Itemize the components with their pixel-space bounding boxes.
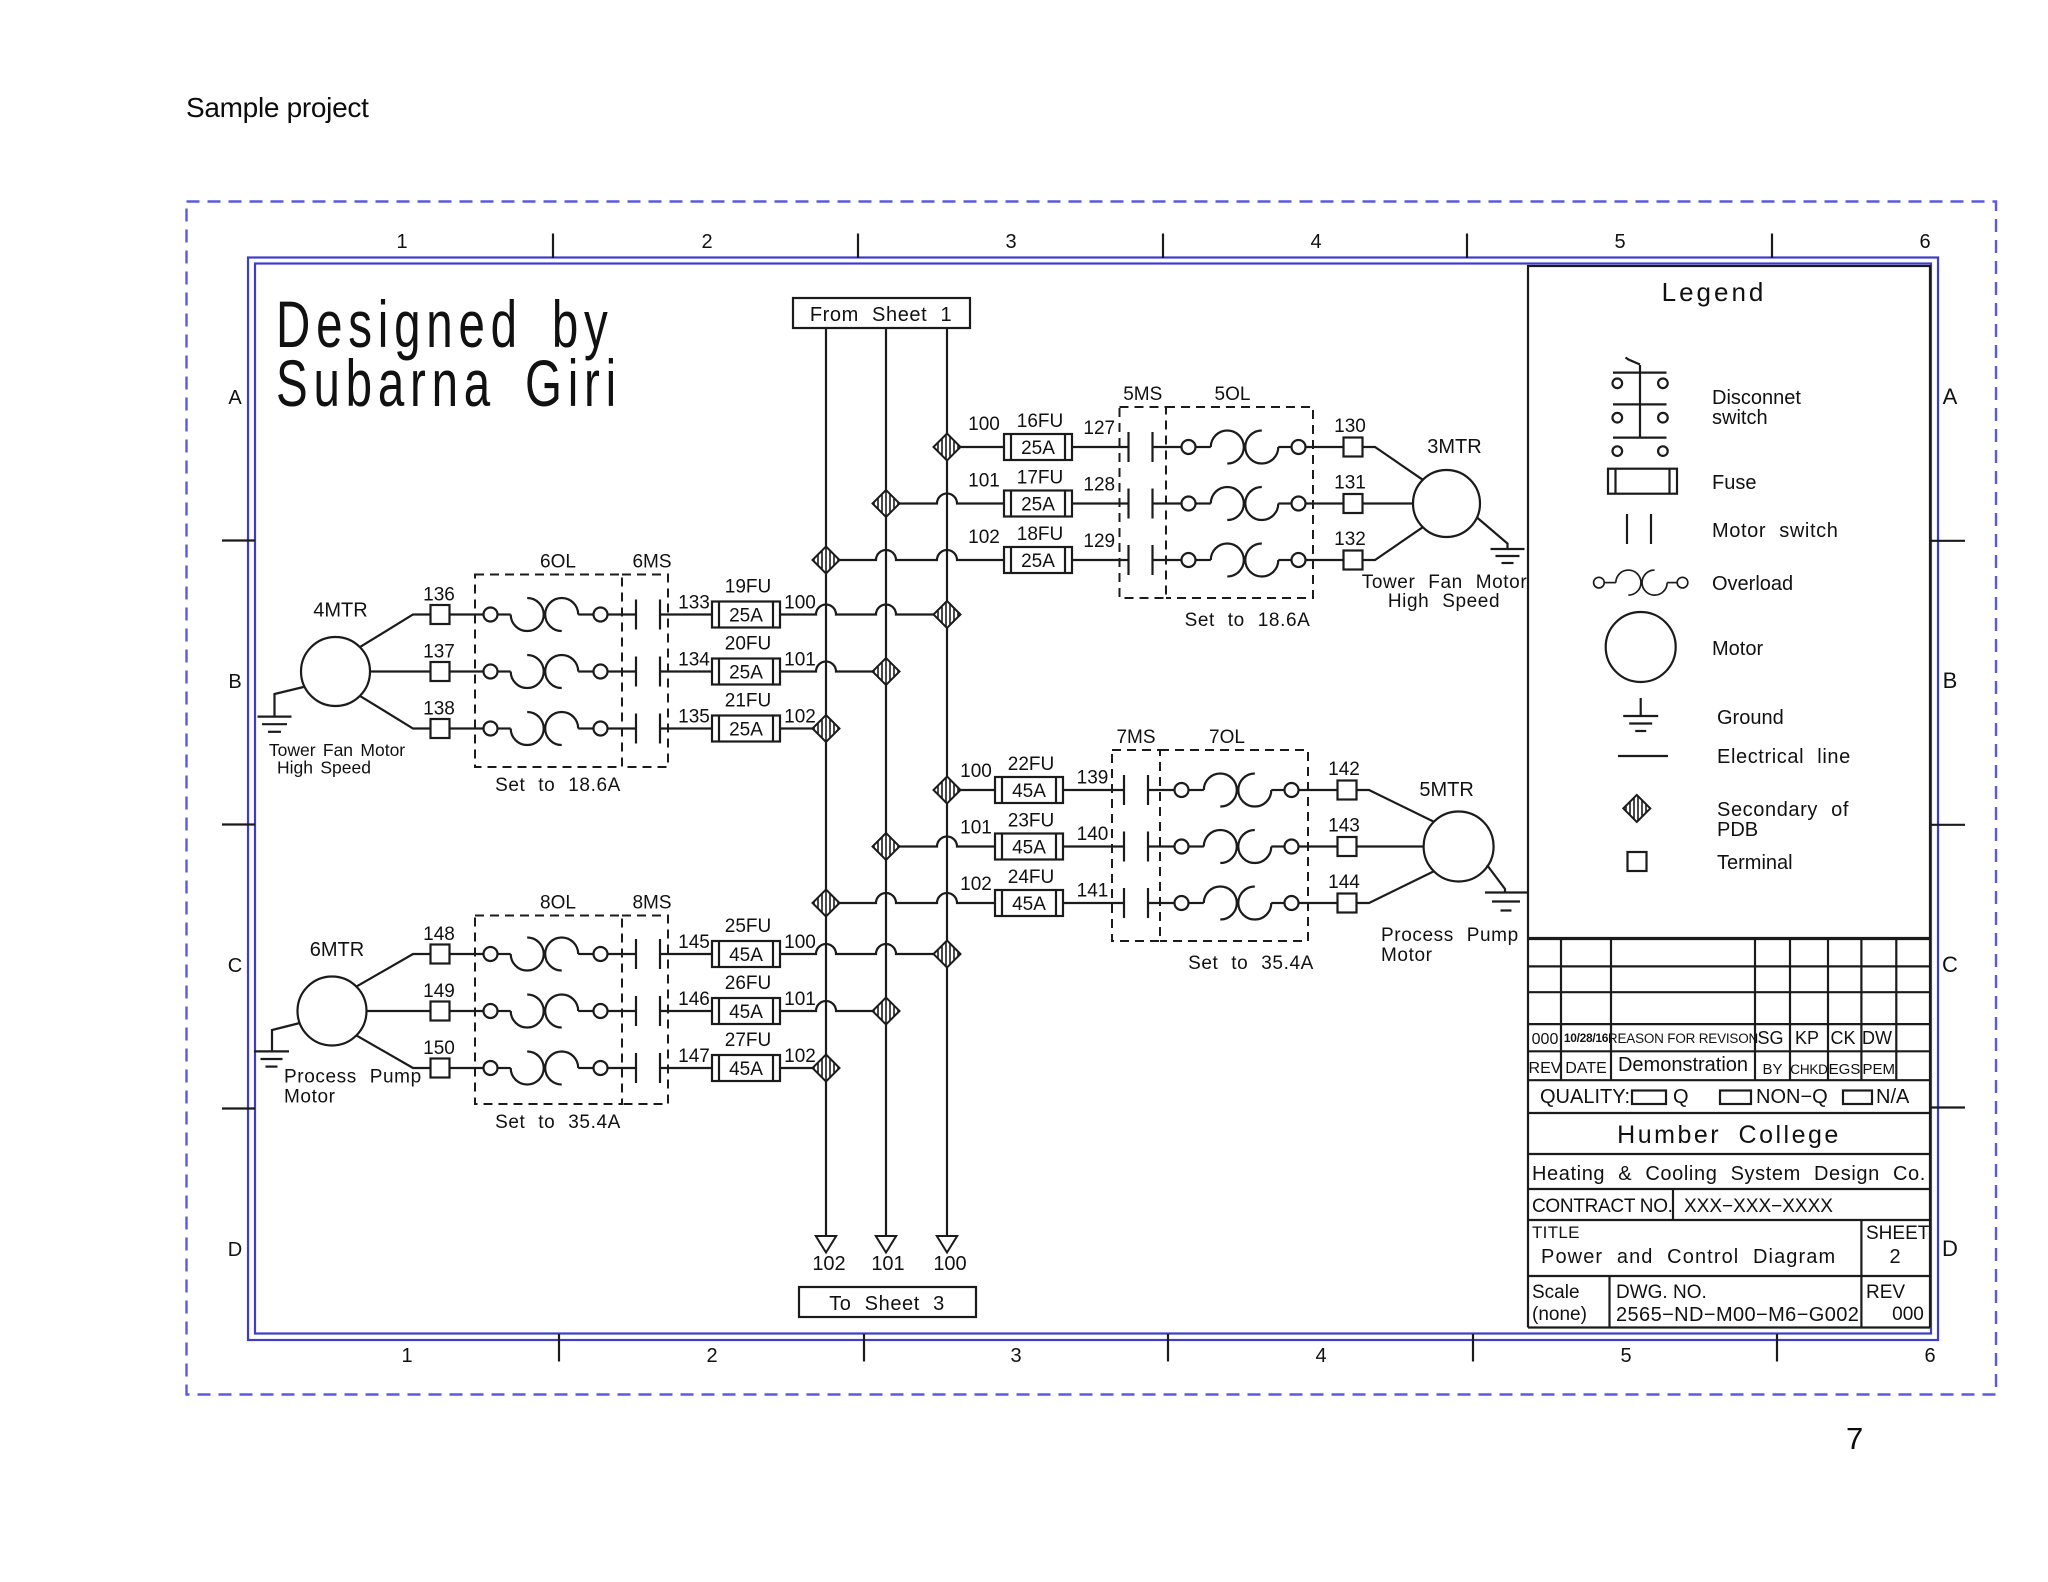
- motor switch contact 3MTR row 3: [1129, 545, 1153, 575]
- svg-text:147: 147: [678, 1046, 710, 1067]
- overload element 6MTR row 3: [484, 1052, 608, 1085]
- svg-text:Subarna Giri: Subarna Giri: [276, 347, 622, 420]
- svg-text:3: 3: [1005, 231, 1016, 253]
- wire overload to motor switch 4MTR row 1: [608, 613, 637, 615]
- svg-text:25A: 25A: [1021, 551, 1055, 572]
- svg-text:127: 127: [1083, 418, 1115, 439]
- svg-text:100: 100: [784, 932, 816, 953]
- motor 3MTR: [1413, 470, 1480, 537]
- svg-text:101: 101: [871, 1253, 904, 1275]
- svg-text:CONTRACT NO.: CONTRACT NO.: [1532, 1196, 1673, 1217]
- overload element 3MTR row 1: [1182, 431, 1306, 464]
- svg-text:Overload: Overload: [1712, 573, 1793, 595]
- wire terminal 150 to overload: [450, 1067, 484, 1069]
- svg-text:6: 6: [1919, 231, 1930, 253]
- wire terminal 142 to motor top: [1357, 790, 1434, 822]
- terminal 149: [431, 1002, 450, 1021]
- grid tick bottom: [863, 1334, 865, 1362]
- svg-text:141: 141: [1077, 881, 1109, 902]
- wire motor to terminal 149: [367, 1010, 431, 1012]
- wire overload to terminal 143: [1299, 845, 1338, 847]
- secondary of PDB diamond net 100 3MTR row 1: [934, 434, 961, 461]
- terminal 144: [1338, 894, 1357, 913]
- svg-text:2: 2: [1889, 1246, 1900, 1268]
- svg-text:000: 000: [1532, 1031, 1559, 1048]
- svg-text:45A: 45A: [1012, 838, 1046, 859]
- svg-text:45A: 45A: [729, 945, 763, 966]
- svg-text:102: 102: [784, 707, 816, 728]
- motor switch contact 3MTR row 2: [1129, 489, 1153, 519]
- svg-text:SG: SG: [1757, 1028, 1783, 1048]
- svg-text:CHKD: CHKD: [1790, 1062, 1828, 1077]
- svg-text:QUALITY:: QUALITY:: [1540, 1086, 1630, 1108]
- svg-text:6MS: 6MS: [632, 552, 671, 573]
- wire motor switch to overload 3MTR row 3: [1153, 559, 1182, 561]
- wire terminal 144 to motor bottom: [1357, 871, 1434, 903]
- svg-text:25FU: 25FU: [725, 916, 771, 937]
- wire motor switch to overload 5MTR row 2: [1148, 845, 1175, 847]
- svg-text:138: 138: [423, 699, 455, 720]
- wire fuse 18FU to motor switch: [1072, 559, 1129, 561]
- fuse 19FU 25A: [712, 602, 780, 628]
- svg-text:Process Pump: Process Pump: [284, 1067, 422, 1088]
- svg-text:High Speed: High Speed: [277, 758, 371, 778]
- svg-text:XXX−XXX−XXXX: XXX−XXX−XXXX: [1684, 1196, 1833, 1217]
- document header text "Sample project": [186, 92, 369, 124]
- svg-text:REV: REV: [1866, 1282, 1905, 1303]
- wire motor switch to fuse 19FU: [660, 613, 712, 615]
- svg-text:REV: REV: [1529, 1060, 1562, 1077]
- svg-text:Disconnet: Disconnet: [1712, 387, 1801, 409]
- wire bus 100 to fuse 16FU: [947, 446, 1004, 448]
- svg-text:25A: 25A: [1021, 438, 1055, 459]
- wire bus 101 to fuse 23FU: [886, 837, 995, 847]
- svg-text:PDB: PDB: [1717, 819, 1758, 841]
- svg-text:100: 100: [784, 593, 816, 614]
- wire terminal 130 to motor top: [1363, 447, 1423, 480]
- svg-text:149: 149: [423, 981, 455, 1002]
- svg-text:TITLE: TITLE: [1532, 1223, 1580, 1242]
- wire motor to terminal 136: [360, 615, 431, 648]
- svg-text:4MTR: 4MTR: [313, 600, 367, 622]
- svg-text:142: 142: [1328, 759, 1360, 780]
- svg-text:101: 101: [784, 989, 816, 1010]
- svg-text:21FU: 21FU: [725, 691, 771, 712]
- wire terminal 149 to overload: [450, 1010, 484, 1012]
- svg-text:22FU: 22FU: [1008, 754, 1054, 775]
- svg-text:EGS: EGS: [1829, 1061, 1861, 1078]
- wire fuse 25FU to bus 100: [780, 944, 947, 954]
- quality checkbox N/A: [1843, 1091, 1872, 1105]
- page number 7: [1846, 1421, 1863, 1457]
- svg-text:Heating & Cooling System Desig: Heating & Cooling System Design Co.: [1532, 1163, 1926, 1185]
- svg-text:C: C: [1942, 952, 1958, 977]
- svg-text:132: 132: [1334, 529, 1366, 550]
- fuse 25FU 45A: [712, 941, 780, 967]
- terminal 131: [1344, 494, 1363, 513]
- svg-text:Electrical line: Electrical line: [1717, 746, 1851, 768]
- grid tick left: [222, 1107, 255, 1109]
- secondary of PDB diamond net 101 3MTR row 2: [873, 490, 900, 517]
- overload element 6MTR row 1: [484, 938, 608, 971]
- svg-text:16FU: 16FU: [1017, 411, 1063, 432]
- svg-text:45A: 45A: [729, 1002, 763, 1023]
- svg-text:4: 4: [1310, 231, 1321, 253]
- wire overload to motor switch 6MTR row 1: [608, 953, 637, 955]
- svg-text:135: 135: [678, 707, 710, 728]
- svg-text:5: 5: [1614, 231, 1625, 253]
- svg-text:Motor: Motor: [284, 1087, 336, 1108]
- overload dashed box 5OL: [1166, 407, 1313, 598]
- fuse 17FU 25A: [1004, 491, 1072, 517]
- svg-text:DW: DW: [1862, 1028, 1892, 1048]
- svg-text:129: 129: [1083, 531, 1115, 552]
- wire motor to terminal 138: [360, 696, 431, 729]
- fuse 27FU 45A: [712, 1055, 780, 1081]
- solid double border inner line: [255, 264, 1931, 1334]
- wire motor switch to overload 3MTR row 2: [1153, 502, 1182, 504]
- svg-text:7MS: 7MS: [1116, 727, 1155, 748]
- overload element 4MTR row 2: [484, 655, 608, 688]
- quality checkbox Q: [1632, 1091, 1666, 1105]
- secondary of PDB diamond net 101 4MTR row 2: [873, 658, 900, 685]
- bus arrowhead to sheet 3: [876, 1236, 896, 1253]
- wire terminal 137 to overload: [450, 670, 484, 672]
- secondary of PDB diamond net 100 5MTR row 1: [934, 777, 961, 804]
- svg-text:130: 130: [1334, 416, 1366, 437]
- title block outer boundary: [1528, 939, 1930, 1328]
- svg-text:N/A: N/A: [1876, 1086, 1910, 1108]
- fuse 20FU 25A: [712, 659, 780, 685]
- svg-text:144: 144: [1328, 872, 1360, 893]
- motor switch contact 5MTR row 2: [1124, 832, 1148, 862]
- motor 5MTR: [1424, 812, 1494, 882]
- terminal 143: [1338, 837, 1357, 856]
- motor switch contact 4MTR row 3: [636, 714, 660, 744]
- ground symbol 6MTR: [254, 1051, 289, 1066]
- quality checkbox NON-Q: [1720, 1091, 1751, 1105]
- svg-text:5OL: 5OL: [1215, 384, 1251, 405]
- svg-text:45A: 45A: [1012, 781, 1046, 802]
- terminal 138: [431, 719, 450, 738]
- svg-text:148: 148: [423, 924, 455, 945]
- legend disconnect switch symbol: [1613, 358, 1668, 456]
- wire terminal 143 to motor: [1357, 845, 1424, 847]
- motor switch contact 6MTR row 3: [636, 1053, 660, 1083]
- svg-text:17FU: 17FU: [1017, 468, 1063, 489]
- legend overload symbol: [1594, 570, 1688, 595]
- svg-text:20FU: 20FU: [725, 634, 771, 655]
- svg-text:102: 102: [968, 527, 1000, 548]
- legend ground symbol: [1640, 698, 1642, 716]
- svg-text:Humber College: Humber College: [1617, 1121, 1841, 1149]
- svg-text:2565−ND−M00−M6−G002: 2565−ND−M00−M6−G002: [1616, 1304, 1859, 1326]
- wire fuse 27FU to bus 102: [780, 1067, 826, 1069]
- wire bus 101 to fuse 17FU: [886, 494, 1004, 504]
- terminal 137: [431, 662, 450, 681]
- ground lead 4MTR: [275, 687, 304, 717]
- overload element 4MTR row 3: [484, 712, 608, 745]
- svg-text:DWG. NO.: DWG. NO.: [1616, 1282, 1707, 1303]
- To Sheet 3 destination box: [799, 1287, 976, 1317]
- svg-text:Legend: Legend: [1662, 277, 1767, 307]
- svg-text:Demonstration: Demonstration: [1618, 1054, 1748, 1076]
- svg-text:8MS: 8MS: [632, 893, 671, 914]
- fuse 21FU 25A: [712, 716, 780, 742]
- grid tick bottom: [558, 1334, 560, 1362]
- svg-text:128: 128: [1083, 475, 1115, 496]
- wire overload to motor switch 6MTR row 2: [608, 1010, 637, 1012]
- svg-text:Motor switch: Motor switch: [1712, 520, 1838, 542]
- secondary of PDB diamond net 101 5MTR row 2: [873, 833, 900, 860]
- wire fuse 21FU to bus 102: [780, 727, 826, 729]
- svg-text:6MTR: 6MTR: [310, 939, 364, 961]
- svg-text:Secondary of: Secondary of: [1717, 799, 1849, 821]
- svg-text:Ground: Ground: [1717, 707, 1784, 729]
- svg-text:2: 2: [706, 1345, 717, 1367]
- wire fuse 19FU to bus 100: [780, 605, 947, 615]
- overload element 5MTR row 2: [1175, 830, 1299, 863]
- svg-text:102: 102: [812, 1253, 845, 1275]
- svg-text:101: 101: [960, 818, 992, 839]
- svg-text:24FU: 24FU: [1008, 867, 1054, 888]
- wire bus 100 to fuse 22FU: [947, 789, 995, 791]
- legend terminal symbol: [1628, 852, 1647, 871]
- legend secondary of PDB diamond: [1623, 795, 1650, 822]
- wire fuse 17FU to motor switch: [1072, 502, 1129, 504]
- fuse 22FU 45A: [995, 777, 1063, 803]
- svg-text:101: 101: [784, 650, 816, 671]
- wire fuse 23FU to motor switch: [1063, 845, 1124, 847]
- ground lead 3MTR: [1477, 518, 1508, 550]
- terminal 136: [431, 605, 450, 624]
- svg-text:Process Pump: Process Pump: [1381, 925, 1519, 946]
- bus wire 100 (vertical): [946, 328, 948, 1236]
- svg-text:26FU: 26FU: [725, 973, 771, 994]
- svg-text:145: 145: [678, 932, 710, 953]
- svg-text:143: 143: [1328, 816, 1360, 837]
- overload dashed box 7OL: [1160, 750, 1308, 941]
- wire motor switch to fuse 27FU: [660, 1067, 712, 1069]
- wire motor switch to overload 5MTR row 3: [1148, 902, 1175, 904]
- svg-text:1: 1: [396, 231, 407, 253]
- secondary of PDB diamond net 100 4MTR row 1: [934, 601, 961, 628]
- grid tick right: [1931, 1106, 1965, 1108]
- wire bus 102 to fuse 18FU: [826, 550, 1004, 560]
- svg-text:133: 133: [678, 593, 710, 614]
- svg-text:7OL: 7OL: [1209, 727, 1245, 748]
- fuse 26FU 45A: [712, 998, 780, 1024]
- svg-text:102: 102: [960, 874, 992, 895]
- terminal 148: [431, 945, 450, 964]
- overload element 3MTR row 3: [1182, 544, 1306, 577]
- ground symbol 4MTR: [258, 717, 292, 732]
- svg-text:100: 100: [933, 1253, 966, 1275]
- svg-text:SHEET: SHEET: [1866, 1223, 1930, 1244]
- svg-text:D: D: [228, 1239, 242, 1261]
- svg-text:Fuse: Fuse: [1712, 472, 1756, 494]
- wire terminal 132 to motor bottom: [1363, 527, 1423, 560]
- wire fuse 22FU to motor switch: [1063, 789, 1124, 791]
- wire motor switch to fuse 25FU: [660, 953, 712, 955]
- bus arrowhead to sheet 3: [937, 1236, 957, 1253]
- overload element 5MTR row 1: [1175, 774, 1299, 807]
- svg-text:5: 5: [1620, 1345, 1631, 1367]
- svg-text:45A: 45A: [729, 1059, 763, 1080]
- motor switch dashed box 8MS: [622, 916, 668, 1105]
- svg-text:25A: 25A: [1021, 495, 1055, 516]
- svg-text:134: 134: [678, 650, 710, 671]
- svg-text:25A: 25A: [729, 606, 763, 627]
- svg-text:Q: Q: [1673, 1086, 1689, 1108]
- svg-text:PEM: PEM: [1862, 1061, 1895, 1078]
- grid tick left: [222, 823, 255, 825]
- wire fuse 20FU to bus 101: [780, 662, 886, 672]
- grid tick top: [1466, 234, 1468, 259]
- svg-text:Motor: Motor: [1712, 638, 1763, 660]
- svg-text:18FU: 18FU: [1017, 524, 1063, 545]
- svg-text:6OL: 6OL: [540, 552, 576, 573]
- svg-text:Set to 35.4A: Set to 35.4A: [495, 1112, 621, 1133]
- svg-text:B: B: [1943, 668, 1958, 693]
- secondary of PDB diamond net 102 4MTR row 3: [813, 715, 840, 742]
- svg-text:Terminal: Terminal: [1717, 852, 1793, 874]
- motor switch dashed box 7MS: [1112, 750, 1160, 941]
- wire motor switch to overload 3MTR row 1: [1153, 446, 1182, 448]
- svg-text:45A: 45A: [1012, 894, 1046, 915]
- svg-text:Power and Control Diagram: Power and Control Diagram: [1541, 1246, 1836, 1268]
- wire overload to motor switch 4MTR row 2: [608, 670, 637, 672]
- svg-text:101: 101: [968, 471, 1000, 492]
- outer dashed page border: [187, 202, 1997, 1395]
- svg-text:1: 1: [401, 1345, 412, 1367]
- wire overload to terminal 132: [1306, 559, 1344, 561]
- terminal 150: [431, 1059, 450, 1078]
- wire overload to terminal 130: [1306, 446, 1344, 448]
- wire motor to terminal 148: [356, 954, 430, 987]
- ground symbol 3MTR: [1491, 549, 1525, 563]
- motor 6MTR: [298, 977, 367, 1046]
- svg-text:140: 140: [1077, 824, 1109, 845]
- legend motor symbol: [1606, 612, 1676, 682]
- legend motor switch symbol: [1627, 514, 1651, 544]
- svg-text:146: 146: [678, 989, 710, 1010]
- terminal 132: [1344, 551, 1363, 570]
- svg-text:25A: 25A: [729, 720, 763, 741]
- motor switch dashed box 5MS: [1120, 407, 1167, 598]
- legend fuse symbol: [1608, 469, 1677, 494]
- secondary of PDB diamond net 102 5MTR row 3: [813, 890, 840, 917]
- svg-text:KP: KP: [1795, 1028, 1819, 1048]
- bus wire 102 (vertical): [825, 328, 827, 1236]
- svg-text:C: C: [228, 955, 242, 977]
- wire motor switch to overload 5MTR row 1: [1148, 789, 1175, 791]
- wire motor to terminal 150: [356, 1035, 430, 1068]
- terminal 142: [1338, 781, 1357, 800]
- motor switch dashed box 6MS: [622, 575, 668, 768]
- svg-text:3: 3: [1010, 1345, 1021, 1367]
- svg-text:25A: 25A: [729, 663, 763, 684]
- svg-text:BY: BY: [1762, 1061, 1782, 1078]
- svg-text:From Sheet 1: From Sheet 1: [810, 304, 952, 326]
- grid tick top: [1162, 234, 1164, 259]
- svg-text:A: A: [228, 387, 242, 409]
- terminal 130: [1344, 438, 1363, 457]
- svg-text:8OL: 8OL: [540, 893, 576, 914]
- svg-text:4: 4: [1315, 1345, 1326, 1367]
- secondary of PDB diamond net 100 6MTR row 1: [934, 941, 961, 968]
- wire overload to terminal 142: [1299, 789, 1338, 791]
- overload element 6MTR row 2: [484, 995, 608, 1028]
- From Sheet 1 source box: [793, 298, 970, 328]
- svg-text:6: 6: [1924, 1345, 1935, 1367]
- svg-text:19FU: 19FU: [725, 577, 771, 598]
- secondary of PDB diamond net 102 6MTR row 3: [813, 1055, 840, 1082]
- fuse 23FU 45A: [995, 834, 1063, 860]
- svg-text:10/28/16: 10/28/16: [1564, 1031, 1609, 1045]
- svg-text:NON−Q: NON−Q: [1756, 1086, 1828, 1108]
- svg-text:131: 131: [1334, 473, 1366, 494]
- overload element 5MTR row 3: [1175, 887, 1299, 920]
- wire overload to terminal 131: [1306, 502, 1344, 504]
- svg-text:switch: switch: [1712, 407, 1768, 429]
- svg-text:5MTR: 5MTR: [1419, 779, 1473, 801]
- svg-text:2: 2: [701, 231, 712, 253]
- svg-text:High Speed: High Speed: [1388, 591, 1500, 612]
- svg-text:000: 000: [1892, 1304, 1924, 1325]
- svg-text:100: 100: [968, 414, 1000, 435]
- grid tick top: [1771, 234, 1773, 259]
- legend panel box: [1528, 266, 1930, 938]
- motor 4MTR: [301, 637, 370, 706]
- secondary of PDB diamond net 102 3MTR row 3: [813, 547, 840, 574]
- ground lead 6MTR: [272, 1023, 300, 1051]
- svg-text:27FU: 27FU: [725, 1030, 771, 1051]
- ground symbol 5MTR: [1485, 893, 1527, 911]
- wire motor switch to fuse 20FU: [660, 670, 712, 672]
- motor switch contact 3MTR row 1: [1129, 432, 1153, 462]
- overload dashed box 6OL: [475, 575, 622, 768]
- wire fuse 24FU to motor switch: [1063, 902, 1124, 904]
- grid tick bottom: [1776, 1334, 1778, 1362]
- wire overload to motor switch 4MTR row 3: [608, 727, 637, 729]
- fuse 18FU 25A: [1004, 547, 1072, 573]
- svg-text:DATE: DATE: [1565, 1060, 1606, 1077]
- wire fuse 26FU to bus 101: [780, 1001, 886, 1011]
- grid tick bottom: [1167, 1334, 1169, 1362]
- wire overload to terminal 144: [1299, 902, 1338, 904]
- svg-text:Motor: Motor: [1381, 945, 1433, 966]
- ground lead 5MTR: [1487, 865, 1505, 893]
- wire terminal 136 to overload: [450, 613, 484, 615]
- overload element 3MTR row 2: [1182, 487, 1306, 520]
- svg-text:A: A: [1943, 384, 1958, 409]
- grid tick top: [857, 234, 859, 259]
- bus arrowhead to sheet 3: [816, 1236, 836, 1253]
- motor switch contact 5MTR row 1: [1124, 775, 1148, 805]
- overload element 4MTR row 1: [484, 598, 608, 631]
- motor switch contact 5MTR row 3: [1124, 888, 1148, 918]
- grid tick top: [552, 234, 554, 259]
- svg-text:B: B: [228, 671, 241, 693]
- svg-text:3MTR: 3MTR: [1427, 436, 1481, 458]
- svg-text:5MS: 5MS: [1123, 384, 1162, 405]
- svg-text:150: 150: [423, 1038, 455, 1059]
- svg-text:To Sheet 3: To Sheet 3: [829, 1293, 945, 1315]
- svg-text:Scale: Scale: [1532, 1282, 1580, 1303]
- bus wire 101 (vertical): [885, 328, 887, 1236]
- motor switch contact 6MTR row 2: [636, 996, 660, 1026]
